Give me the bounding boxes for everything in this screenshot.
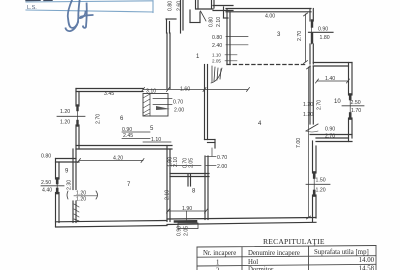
left wall of hall going down	[166, 33, 168, 89]
svg-text:1.10: 1.10	[212, 53, 221, 58]
top wall from main right wall	[313, 62, 352, 64]
top wall of 9	[56, 158, 77, 160]
svg-text:1.20: 1.20	[76, 197, 86, 203]
niche U	[189, 10, 191, 23]
svg-text:2.10: 2.10	[216, 17, 222, 27]
svg-text:1.20: 1.20	[60, 109, 70, 115]
1.40 dim	[317, 80, 348, 82]
7.00 vertical dim	[308, 67, 310, 217]
svg-text:Dormitor: Dormitor	[248, 267, 274, 270]
svg-text:2.40: 2.40	[212, 43, 222, 49]
svg-text:0.80: 0.80	[168, 1, 174, 11]
stamp box lines (blue)	[26, 1, 153, 13]
dim ticks	[78, 13, 350, 219]
svg-text:14.00: 14.00	[359, 257, 375, 264]
svg-text:2.50: 2.50	[351, 100, 361, 106]
svg-text:0.70: 0.70	[173, 100, 183, 106]
svg-text:0.80: 0.80	[212, 35, 222, 41]
svg-text:2.05: 2.05	[184, 226, 190, 236]
bottom wall room6	[76, 145, 172, 147]
svg-text:2.05: 2.05	[189, 158, 195, 168]
window symbol room 3	[311, 21, 313, 27]
bracket wall	[166, 18, 176, 20]
wall left of hall	[180, 0, 182, 33]
top small walls	[196, 8, 213, 10]
svg-text:1.50: 1.50	[316, 178, 326, 184]
svg-text:2.05: 2.05	[212, 59, 221, 64]
svg-text:2.70: 2.70	[96, 114, 102, 124]
room 5 box	[143, 94, 168, 117]
left wall	[226, 9, 228, 65]
door of 10	[306, 124, 318, 131]
dashed divider	[227, 64, 306, 66]
top wall	[76, 88, 143, 90]
left outer wall with window	[55, 159, 57, 180]
svg-text:2.70: 2.70	[317, 100, 323, 110]
svg-text:14.58: 14.58	[359, 265, 375, 270]
svg-text:1.20: 1.20	[303, 112, 313, 118]
svg-text:1.20: 1.20	[316, 188, 326, 194]
left wall	[166, 146, 168, 222]
svg-text:2.60: 2.60	[177, 1, 183, 11]
svg-text:0.90: 0.90	[177, 226, 183, 236]
svg-text:2.30: 2.30	[67, 180, 73, 190]
right wall with window gap	[309, 9, 311, 22]
svg-text:7.00: 7.00	[296, 138, 302, 148]
signature	[66, 0, 93, 31]
bottom wall of 10	[310, 134, 352, 136]
svg-text:RECAPITULAŢIE: RECAPITULAŢIE	[263, 237, 325, 246]
svg-text:1.70: 1.70	[351, 108, 361, 114]
svg-text:Hol: Hol	[248, 259, 258, 266]
svg-text:L.S.: L.S.	[27, 5, 37, 11]
left wall with window gap	[75, 89, 77, 107]
door hatch in hall	[212, 66, 221, 82]
svg-text:4.20: 4.20	[113, 156, 123, 162]
svg-text:2.45: 2.45	[123, 133, 133, 139]
svg-text:10: 10	[334, 99, 341, 105]
svg-text:4.00: 4.00	[265, 14, 275, 20]
svg-text:4.40: 4.40	[42, 188, 52, 194]
left wall of room4	[204, 65, 206, 140]
svg-text:2.00: 2.00	[174, 108, 184, 114]
svg-text:1.80: 1.80	[320, 35, 330, 41]
wall between 9 and 7	[72, 149, 74, 190]
entrance door thick	[175, 220, 196, 223]
svg-text:2.00: 2.00	[217, 164, 227, 170]
svg-text:2.70: 2.70	[297, 31, 303, 41]
4.20 dim line	[79, 160, 143, 162]
svg-text:1: 1	[216, 259, 219, 266]
svg-text:1.20: 1.20	[303, 102, 313, 108]
svg-text:2.70: 2.70	[325, 134, 335, 140]
svg-text:2.10: 2.10	[165, 190, 171, 200]
right wall of 10 with window	[348, 63, 350, 96]
svg-text:0.80: 0.80	[209, 17, 215, 27]
svg-text:0.90: 0.90	[325, 127, 335, 133]
svg-text:Denumire incapere: Denumire incapere	[248, 250, 300, 257]
top wall	[226, 8, 311, 10]
wall below door to bottom	[204, 156, 206, 220]
svg-text:0.80: 0.80	[41, 154, 51, 160]
svg-text:Nr. incapere: Nr. incapere	[203, 250, 236, 257]
svg-text:2.50: 2.50	[41, 180, 51, 186]
svg-text:0.90: 0.90	[318, 27, 328, 33]
svg-text:Suprafata utila [mp]: Suprafata utila [mp]	[314, 249, 369, 256]
left wall of 10	[309, 66, 311, 124]
partition in 8	[170, 173, 209, 175]
svg-text:1.40: 1.40	[325, 76, 335, 82]
svg-text:0.70: 0.70	[217, 155, 227, 161]
svg-text:1.20: 1.20	[60, 120, 70, 126]
svg-text:1.60: 1.60	[180, 87, 190, 93]
